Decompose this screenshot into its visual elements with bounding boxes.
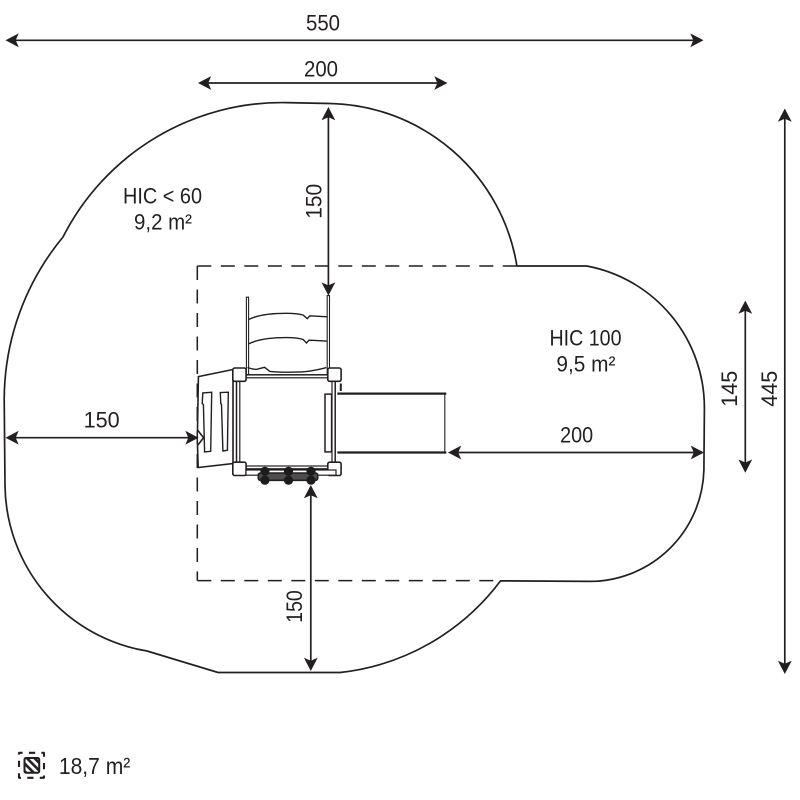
climbing ramp (left) (198, 370, 234, 468)
bar bolt x=265 bottom (260, 476, 269, 485)
svg-text:145: 145 (717, 371, 742, 407)
bottom climbing bar (258, 473, 317, 480)
svg-text:445: 445 (757, 371, 782, 407)
safety zone outline (4, 103, 704, 673)
dimension 445 (far right) (784, 118, 786, 666)
svg-text:9,5 m²: 9,5 m² (556, 351, 615, 376)
corner post top-left (233, 368, 246, 381)
bottom step board (246, 470, 336, 475)
dimension 150 (bottom vertical) (310, 494, 312, 662)
slide left rail (246, 297, 248, 374)
svg-text:150: 150 (84, 407, 120, 432)
corner post bottom-left (233, 462, 246, 475)
corner post bottom-right (328, 462, 341, 475)
platform outer frame (237, 375, 336, 469)
slide edge wave 1 (249, 313, 328, 319)
dimension 145 (right) (744, 310, 746, 464)
corner post top-right (328, 368, 341, 381)
svg-text:HIC 100: HIC 100 (550, 325, 622, 350)
slide right rail (327, 296, 329, 375)
ramp end line (444, 393, 446, 454)
svg-text:150: 150 (282, 590, 307, 623)
ramp connector plate (325, 394, 332, 452)
bar bolt x=311 bottom (306, 476, 315, 485)
svg-text:200: 200 (304, 56, 338, 81)
climber slat 2 (220, 392, 228, 451)
dimension 200 (right) (457, 452, 695, 454)
platform inner frame (240, 378, 332, 466)
bar bolt x=311 top (306, 467, 315, 476)
dimension 150 (upper vertical) (327, 116, 329, 287)
slide edge wave 2 (249, 338, 328, 344)
legend hatched square icon (19, 753, 44, 778)
climber slat 1 (202, 392, 212, 452)
svg-text:150: 150 (302, 184, 327, 219)
svg-text:HIC < 60: HIC < 60 (123, 183, 202, 208)
ramp top rail (337, 392, 446, 394)
svg-text:18,7 m²: 18,7 m² (59, 753, 131, 779)
bar bolt x=288 bottom (284, 476, 293, 485)
ramp bottom rail (337, 451, 446, 453)
svg-text:9,2 m²: 9,2 m² (134, 209, 192, 234)
bar bolt x=265 top (260, 467, 269, 476)
dimension 200 (top) (207, 82, 439, 84)
slide edge wave 3 (248, 367, 327, 372)
dimension 150 (left) (15, 437, 190, 439)
bar bolt x=288 top (284, 467, 293, 476)
ramp joint tick (340, 384, 342, 392)
dashed minimal area rectangle (197, 266, 516, 581)
dimension 550 (top) (15, 39, 695, 41)
svg-text:200: 200 (560, 423, 593, 448)
svg-text:550: 550 (306, 11, 340, 36)
